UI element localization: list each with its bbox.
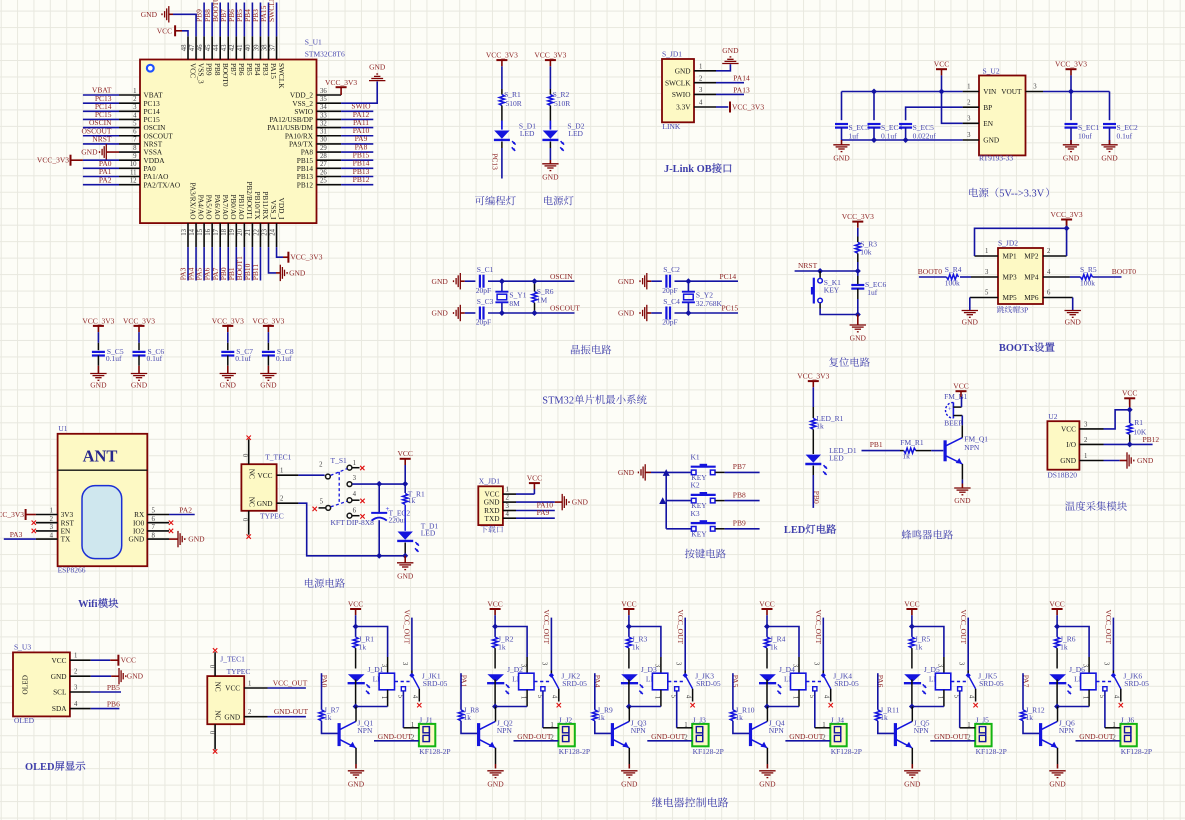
svg-text:GND: GND <box>131 380 148 389</box>
svg-text:4: 4 <box>823 695 830 699</box>
svg-text:15: 15 <box>197 228 204 235</box>
svg-text:5: 5 <box>133 120 137 127</box>
svg-text:GND: GND <box>51 672 67 681</box>
svg-text:VCC: VCC <box>348 599 363 608</box>
power symbol VCC_3V3 <box>0 509 36 520</box>
svg-text:3: 3 <box>957 662 964 666</box>
svg-text:GND: GND <box>1049 779 1066 788</box>
connector pin 2 GND <box>248 496 299 508</box>
svg-text:24: 24 <box>269 228 276 235</box>
svg-text:PC14: PC14 <box>720 272 737 281</box>
pin number 3 <box>957 662 964 666</box>
svg-text:GND-OUT: GND-OUT <box>1079 732 1114 741</box>
svg-text:LED: LED <box>520 129 535 138</box>
svg-text:OLED: OLED <box>21 675 30 694</box>
svg-text:S_R5: S_R5 <box>1080 265 1097 274</box>
svg-text:4: 4 <box>699 100 703 107</box>
svg-text:GND-OUT: GND-OUT <box>517 732 552 741</box>
resistor J_R2 1k <box>493 627 514 669</box>
svg-text:VCC: VCC <box>953 382 968 391</box>
svg-text:5V-->3.3V: 5V-->3.3V <box>999 189 1045 200</box>
svg-text:PB6: PB6 <box>107 699 120 708</box>
wire <box>516 489 534 494</box>
connector pin 1 VCC <box>484 487 516 499</box>
net label PB5 <box>107 683 120 692</box>
resistor J_R3 1k <box>626 627 647 669</box>
mcu pin 13 PA3/RX/AO <box>179 182 198 280</box>
svg-text:4: 4 <box>506 511 510 518</box>
svg-text:3: 3 <box>401 662 408 666</box>
svg-text:NRST: NRST <box>92 135 112 144</box>
wire <box>857 253 859 271</box>
svg-text:PA2: PA2 <box>179 505 192 514</box>
wifi pin 7 IO2 <box>133 524 169 535</box>
svg-text:10: 10 <box>130 161 137 168</box>
svg-text:5: 5 <box>985 290 989 297</box>
svg-text:16: 16 <box>205 228 212 235</box>
svg-text:VCC_3V3: VCC_3V3 <box>534 51 566 60</box>
wire <box>549 66 551 89</box>
svg-text:GND: GND <box>257 499 273 508</box>
svg-text:1uf: 1uf <box>867 288 878 297</box>
power symbol VCC (relay 5) <box>904 599 919 615</box>
svg-text:4: 4 <box>50 532 54 539</box>
svg-text:OLED: OLED <box>25 762 54 773</box>
svg-text:3: 3 <box>967 132 971 139</box>
wire <box>767 706 799 708</box>
svg-text:SWCLK: SWCLK <box>665 78 691 87</box>
svg-text:GND: GND <box>850 334 867 343</box>
net label PB1 <box>870 440 883 449</box>
connector S_JD1 LINK body <box>662 49 694 131</box>
mcu pin23 gnd <box>269 247 306 281</box>
ground <box>618 464 651 480</box>
ground <box>348 771 365 789</box>
svg-text:1: 1 <box>684 722 687 729</box>
connector top pin 0 <box>208 648 218 676</box>
ground <box>542 160 559 181</box>
svg-text:6: 6 <box>353 508 357 515</box>
power symbol VCC (relay 1) <box>348 599 363 615</box>
transistor J_Q5 NPN <box>895 718 929 748</box>
wifi module U1 ESP8266 body <box>58 424 148 575</box>
svg-text:18: 18 <box>221 228 228 235</box>
relay contact 4 nc <box>967 689 977 708</box>
junction <box>1064 225 1070 231</box>
svg-text:1M: 1M <box>537 295 548 304</box>
wire <box>97 332 99 350</box>
led J_D5 LED <box>904 665 944 694</box>
resistor J_R8 1k <box>458 705 479 722</box>
mcu pin 6 OSCOUT <box>81 126 173 140</box>
svg-text:FM_B1: FM_B1 <box>944 392 968 401</box>
svg-text:11: 11 <box>130 169 137 176</box>
svg-text:1: 1 <box>1112 722 1115 729</box>
net label NRST <box>798 261 818 270</box>
svg-text:BOOTx: BOOTx <box>999 343 1035 354</box>
net label GND-OUT <box>651 732 686 741</box>
relay contact 5 <box>670 687 679 728</box>
svg-text:2: 2 <box>133 96 137 103</box>
svg-text:K3: K3 <box>691 509 700 518</box>
capacitor S_C2 20pF <box>662 265 680 295</box>
ground <box>487 771 504 789</box>
wire <box>766 680 768 707</box>
led S_D2 LED <box>542 122 584 151</box>
net label GND-OUT <box>789 732 824 741</box>
svg-text:3: 3 <box>50 524 54 531</box>
connector pin 2 GND <box>214 709 268 721</box>
terminal J_J4 KF128-2P <box>830 716 862 757</box>
svg-text:4: 4 <box>684 695 691 699</box>
wire <box>1104 460 1120 462</box>
resistor S_R5 100k <box>1070 265 1122 287</box>
svg-text:4: 4 <box>353 491 357 498</box>
svg-text:MP6: MP6 <box>1024 293 1039 302</box>
mcu pin 43 PB7 <box>219 3 238 76</box>
resistor J_R9 1k <box>592 705 613 722</box>
ground <box>1063 128 1080 163</box>
pin number 3 <box>1103 662 1110 666</box>
svg-text:3: 3 <box>985 269 989 276</box>
svg-text:PB1: PB1 <box>870 440 883 449</box>
svg-text:33: 33 <box>320 112 327 119</box>
svg-text:GND: GND <box>260 380 277 389</box>
terminal J_J3 KF128-2P <box>692 716 724 757</box>
wire <box>549 142 551 149</box>
svg-text:PA7/AO: PA7/AO <box>221 195 230 220</box>
svg-text:1k: 1k <box>1060 642 1068 651</box>
svg-text:32: 32 <box>320 120 327 127</box>
svg-text:J_J6: J_J6 <box>1121 716 1135 725</box>
svg-text:GND: GND <box>572 498 589 507</box>
wire <box>1109 92 1111 121</box>
svg-text:3.3V: 3.3V <box>676 103 691 112</box>
relay J_JK6 SRD-05 coil <box>1081 671 1150 690</box>
svg-text:TYPEC: TYPEC <box>227 667 251 676</box>
capacitor S_EC5 0.022uf <box>899 123 936 141</box>
svg-text:1: 1 <box>822 722 825 729</box>
capacitor S_C1 20pF <box>476 265 494 295</box>
wire <box>653 690 661 707</box>
wire collector <box>1057 707 1059 722</box>
wire coil branch <box>495 627 527 674</box>
svg-text:26: 26 <box>320 169 327 176</box>
svg-text:7: 7 <box>133 137 137 144</box>
svg-text:VCC: VCC <box>1049 599 1064 608</box>
svg-text:NRST: NRST <box>798 261 818 270</box>
svg-text:20pF: 20pF <box>662 286 677 295</box>
switch pin4 nc <box>352 499 365 503</box>
wifi pin 2 RST <box>36 516 75 527</box>
svg-text:VSS_I: VSS_I <box>269 200 278 220</box>
svg-text:PA9: PA9 <box>537 508 550 517</box>
svg-text:220uf: 220uf <box>389 516 407 525</box>
svg-text:1: 1 <box>936 696 943 699</box>
junction <box>663 469 670 476</box>
svg-text:K1: K1 <box>691 452 700 461</box>
sensor pin 3 VCC <box>1061 421 1104 433</box>
svg-text:VCC_3V3: VCC_3V3 <box>82 316 114 325</box>
svg-text:KEY: KEY <box>691 529 707 538</box>
wire <box>911 615 913 626</box>
svg-text:LED: LED <box>568 129 583 138</box>
transistor J_Q1 NPN <box>339 718 373 748</box>
switch pin1 nc <box>352 466 365 470</box>
svg-text:2: 2 <box>699 75 703 82</box>
relay J_JK2 SRD-05 coil <box>519 671 588 690</box>
caption <box>571 345 611 355</box>
wire <box>647 734 692 741</box>
ground <box>432 273 465 289</box>
wire <box>516 517 555 519</box>
wire <box>91 675 112 677</box>
mcu pin 44 BOOT0 <box>211 0 230 87</box>
svg-text:VIN: VIN <box>983 87 997 96</box>
svg-text:3: 3 <box>1084 421 1088 428</box>
ground <box>618 273 651 289</box>
svg-text:35: 35 <box>320 96 327 103</box>
relay contact 5 <box>396 687 405 728</box>
svg-text:VCC: VCC <box>1061 425 1076 434</box>
svg-text:NPN: NPN <box>914 726 930 735</box>
wire collector <box>495 707 497 722</box>
relay contact 5 <box>1098 687 1107 728</box>
svg-text:VCC_3V3: VCC_3V3 <box>37 156 69 165</box>
ground <box>962 311 979 327</box>
svg-text:20pF: 20pF <box>476 318 491 327</box>
relay contact 5 <box>808 687 817 728</box>
wire <box>494 615 496 626</box>
net label PA6 <box>876 675 885 688</box>
svg-text:VCC: VCC <box>621 599 636 608</box>
net label OSCOUT <box>550 304 580 313</box>
svg-text:1: 1 <box>550 722 553 729</box>
svg-text:GND: GND <box>141 10 158 19</box>
svg-text:1k: 1k <box>735 713 743 722</box>
wire emitter <box>766 748 768 769</box>
wire <box>878 721 895 734</box>
svg-text:PB10/TX: PB10/TX <box>253 192 262 221</box>
relay lever <box>534 673 559 689</box>
svg-text:4: 4 <box>74 701 78 708</box>
connector bottom pin 0 <box>241 511 251 539</box>
net label BOOT0 <box>1112 267 1136 276</box>
ground <box>131 374 148 390</box>
key K3 KEY <box>691 509 716 539</box>
svg-text:BOOT0: BOOT0 <box>221 63 230 87</box>
net label PA3 <box>10 530 23 539</box>
led LED_D1 LED <box>805 446 857 475</box>
svg-text:VCC_3V3: VCC_3V3 <box>290 253 322 262</box>
wire <box>268 687 306 689</box>
power symbol VCC_3V3 <box>82 316 114 332</box>
capacitor S_EC6 1uf <box>851 271 886 315</box>
wire <box>666 500 691 502</box>
svg-text:KF128-2P: KF128-2P <box>976 747 1007 756</box>
mcu pin 12 PA2/TX/AO <box>83 175 180 189</box>
ground <box>1065 311 1082 327</box>
svg-text:GND: GND <box>224 712 240 721</box>
wire <box>936 690 944 707</box>
net label PC14 <box>720 272 737 281</box>
power symbol VCC (relay 2) <box>487 599 502 615</box>
svg-text:PA3/RX/AO: PA3/RX/AO <box>189 182 198 219</box>
wire <box>355 615 357 626</box>
svg-text:27: 27 <box>320 161 327 168</box>
power symbol VCC_3V3 <box>252 316 284 332</box>
wire <box>967 618 969 675</box>
mcu pin36 vcc_3v3 <box>325 78 357 95</box>
mcu pin8 VSSA gnd <box>81 144 119 160</box>
svg-text:J_TEC1: J_TEC1 <box>220 655 245 664</box>
terminal J_J1 KF128-2P <box>419 716 451 757</box>
wire <box>514 734 559 741</box>
wire <box>941 75 943 91</box>
wire <box>1022 673 1024 710</box>
svg-text:510R: 510R <box>554 99 570 108</box>
svg-text:1k: 1k <box>324 713 332 722</box>
ground <box>954 484 971 506</box>
svg-text:VCC_OUT: VCC_OUT <box>542 610 551 645</box>
resistor R1 10K <box>1127 410 1147 445</box>
wire <box>812 466 814 508</box>
connector pin 2 SWCLK <box>665 75 716 87</box>
svg-text:3: 3 <box>133 104 137 111</box>
wire <box>91 659 111 661</box>
ground <box>220 374 237 390</box>
svg-text:VSS_3: VSS_3 <box>197 63 206 84</box>
svg-text:GND: GND <box>904 779 921 788</box>
mcu pin 7 NRST <box>83 135 163 149</box>
wire <box>298 474 324 476</box>
svg-text:VCC_3V3: VCC_3V3 <box>842 212 874 221</box>
svg-text:2: 2 <box>411 734 415 741</box>
svg-text:3: 3 <box>506 503 510 510</box>
transistor J_Q3 NPN <box>612 718 646 748</box>
wire <box>1082 690 1090 707</box>
wire <box>961 464 963 484</box>
wire pin2 to bottom rail <box>298 503 405 556</box>
caption <box>784 524 836 536</box>
svg-text:GND: GND <box>722 46 739 55</box>
ground <box>1120 452 1154 468</box>
svg-text:X_JD1: X_JD1 <box>479 477 501 486</box>
svg-text:S_U2: S_U2 <box>983 67 1000 76</box>
svg-text:5: 5 <box>152 508 156 515</box>
net label PB7 <box>733 462 746 471</box>
no connect <box>169 521 173 525</box>
svg-text:PB11/RX: PB11/RX <box>261 191 270 220</box>
svg-text:28: 28 <box>320 153 327 160</box>
regulator pin 3 VOUT <box>1001 84 1043 96</box>
svg-text:VCC: VCC <box>934 60 949 69</box>
mcu pin 3 PC14 <box>83 102 160 116</box>
wire <box>960 722 976 729</box>
svg-text:42: 42 <box>229 44 236 51</box>
net label PA13 <box>733 85 750 94</box>
connector pin 1 VCC <box>214 680 268 692</box>
net label VCC_OUT <box>814 610 823 645</box>
connector pins 5 6 <box>970 290 1073 303</box>
svg-text:VDD_I: VDD_I <box>277 198 286 220</box>
wire <box>550 618 552 675</box>
wire <box>677 722 693 729</box>
junction <box>376 481 382 487</box>
no connect <box>32 521 36 525</box>
svg-text:OSCOUT: OSCOUT <box>550 304 580 313</box>
ground <box>397 556 414 581</box>
svg-text:10uf: 10uf <box>1078 131 1092 140</box>
svg-text:VCC_3V3: VCC_3V3 <box>1055 60 1087 69</box>
net label PA7 <box>1021 675 1030 688</box>
power symbol VCC (relay 6) <box>1049 599 1064 615</box>
junction <box>685 310 691 316</box>
mcu pin 30 PA9/TX <box>289 134 373 148</box>
buzzer FM_B1 BEEP <box>944 392 968 428</box>
net label PC15 <box>722 304 739 313</box>
svg-text:VCC: VCC <box>1122 389 1137 398</box>
wire <box>501 142 503 149</box>
svg-text:0: 0 <box>241 518 248 522</box>
wire <box>461 721 478 734</box>
wire <box>791 690 799 707</box>
no connect <box>32 529 36 533</box>
svg-text:5: 5 <box>320 499 324 506</box>
svg-text:NPN: NPN <box>497 726 513 735</box>
display pin 1 VCC <box>51 653 90 665</box>
svg-text:NC: NC <box>214 682 223 692</box>
connector pins 3 4 <box>971 269 1070 282</box>
wire coil branch <box>1057 627 1089 674</box>
svg-text:3: 3 <box>353 475 357 482</box>
mcu pin 20 PB2/BOOT1 <box>235 181 254 280</box>
wire <box>969 298 971 311</box>
svg-text:8: 8 <box>133 145 137 152</box>
junction <box>532 278 538 284</box>
wire emitter <box>355 748 357 769</box>
wire <box>460 673 462 710</box>
led J_D3 LED <box>621 665 661 694</box>
svg-text:2: 2 <box>967 99 971 106</box>
svg-text:1k: 1k <box>498 642 506 651</box>
junction <box>764 624 770 630</box>
key K2 KEY <box>691 481 716 511</box>
mcu pin 37 SWCLK <box>267 0 286 89</box>
relay contact 4 nc <box>684 689 694 708</box>
power symbol VCC (relay 3) <box>621 599 636 615</box>
svg-text:PA6/AO: PA6/AO <box>213 195 222 220</box>
mcu pin 32 PA11/USB/DM <box>267 118 373 132</box>
svg-text:VCC_OUT: VCC_OUT <box>959 610 968 645</box>
wire <box>321 673 323 710</box>
svg-text:NPN: NPN <box>631 726 647 735</box>
ground <box>1101 128 1118 163</box>
wire <box>766 615 768 626</box>
capacitor S_C7 0.1uf <box>221 347 253 363</box>
svg-text:GND: GND <box>1065 317 1082 326</box>
junction <box>1054 704 1060 710</box>
mcu pin 29 PA8 <box>301 142 374 156</box>
svg-text:KF128-2P: KF128-2P <box>559 747 590 756</box>
svg-text:1: 1 <box>985 248 988 255</box>
wire <box>873 92 875 121</box>
display pin 3 SCL <box>53 684 91 696</box>
resistor FM_R1 1k <box>900 438 924 460</box>
key K1 KEY <box>691 452 716 482</box>
wire GND rail <box>842 139 963 141</box>
mcu U1 body S_U1 STM32C8T6 <box>140 38 345 223</box>
